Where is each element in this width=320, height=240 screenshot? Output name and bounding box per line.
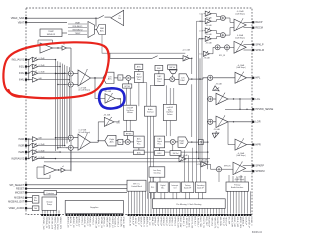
mixer left-adc B <box>68 82 73 87</box>
wire RESET <box>27 188 127 190</box>
svg-text:HPVDD_18: HPVDD_18 <box>94 217 96 229</box>
wire right dac out <box>188 141 198 142</box>
wire temp sensor out <box>62 32 67 34</box>
svg-text:SPI_SELECT: SPI_SELECT <box>9 184 24 187</box>
wire webbing below boxes <box>127 116 171 199</box>
amp LOR <box>216 116 228 128</box>
annotation red circle <box>3 42 108 98</box>
wire agc link L <box>138 69 140 71</box>
wire interp2 in <box>98 122 105 142</box>
buffer x1 bottom <box>61 166 65 172</box>
svg-text:ADC: ADC <box>100 29 105 32</box>
svg-text:Proc.: Proc. <box>137 143 142 146</box>
svg-text:CLKOUT_P: CLKOUT_P <box>216 217 218 229</box>
svg-text:DVDD_12: DVDD_12 <box>78 217 80 228</box>
svg-text:LOL: LOL <box>200 13 204 15</box>
svg-text:Supplies: Supplies <box>90 207 99 209</box>
svg-text:-78..0dB: -78..0dB <box>215 83 222 85</box>
box tertiary audio if <box>182 182 194 193</box>
svg-text:Volume: Volume <box>127 112 133 114</box>
svg-text:-36..0dB: -36..0dB <box>103 115 111 117</box>
svg-text:Mic.: Mic. <box>161 188 165 190</box>
svg-text:IN4L: IN4L <box>19 79 25 82</box>
wire mixers to pga2 <box>73 138 78 148</box>
wire input common bottom <box>28 139 30 159</box>
pin SPI_SELECT <box>9 184 27 187</box>
pin MICBIAS <box>14 197 27 200</box>
label pga2 gain <box>79 130 91 134</box>
wire hpvdd sense <box>225 99 252 110</box>
svg-text:-78..0dB: -78..0dB <box>205 42 211 44</box>
wire radc to fs <box>116 140 118 142</box>
mixer lol <box>207 96 213 101</box>
wire lol loop vert <box>207 78 208 169</box>
svg-text:HPVDD_SENSE: HPVDD_SENSE <box>255 108 273 111</box>
amp rec LOL <box>200 11 212 19</box>
label pga1 gain <box>79 87 91 91</box>
svg-text:IOVSS_0: IOVSS_0 <box>86 217 88 227</box>
svg-text:SPL_IN: SPL_IN <box>219 55 226 57</box>
svg-text:TDM_OUT1: TDM_OUT1 <box>213 217 215 230</box>
wire SPKL outs <box>244 45 253 50</box>
svg-text:HPL: HPL <box>255 76 261 80</box>
opamp vref-sar buffer <box>40 43 53 53</box>
wire bypass IN2R <box>38 151 208 153</box>
svg-text:Secondary: Secondary <box>197 185 205 187</box>
wire vref-audio rail <box>65 150 71 170</box>
pin RECP <box>252 20 263 24</box>
amp input IN2L <box>19 64 45 69</box>
amp input IN1L/AUX1 <box>12 57 46 62</box>
svg-text:-12..6.1dB: -12..6.1dB <box>180 155 189 157</box>
svg-text:Proc.: Proc. <box>137 78 142 81</box>
mult right adc vol <box>125 139 130 144</box>
wire drc link L <box>158 71 160 74</box>
svg-text:Control Block: Control Block <box>131 185 142 188</box>
wire pga1 to left adc <box>91 77 104 78</box>
mixer right-adc A <box>68 135 73 140</box>
svg-text:HP NG: HP NG <box>126 133 132 135</box>
wire agc link R <box>138 148 140 150</box>
amp input IN2R <box>18 149 45 154</box>
svg-text:AVSS2_0: AVSS2_0 <box>75 217 78 227</box>
wire bypass low <box>44 161 208 163</box>
svg-text:DVDD2_12: DVDD2_12 <box>111 217 113 229</box>
wire left dac out <box>189 78 208 80</box>
wire primary audio up <box>229 175 245 182</box>
box pin muxing <box>153 199 226 209</box>
wire mixers to pga1 <box>73 74 78 85</box>
svg-text:ADDR1_S: ADDR1_S <box>145 217 148 228</box>
wire mult to dac L <box>175 78 179 80</box>
wire vert A2 <box>191 84 193 137</box>
wire vref-audio out <box>56 169 61 170</box>
box adc signal proc R <box>134 136 145 148</box>
pin SPKRM <box>252 169 264 173</box>
svg-text:-78..0dB: -78..0dB <box>204 58 210 60</box>
svg-text:ADDR_SEL: ADDR_SEL <box>239 217 242 229</box>
svg-text:AVDD1_18: AVDD1_18 <box>66 217 69 229</box>
svg-text:IN1R/AUX2: IN1R/AUX2 <box>11 158 25 161</box>
wire lfc links <box>153 177 160 182</box>
svg-text:SDIN_P: SDIN_P <box>137 217 139 225</box>
wire amp-to-bus bottom <box>38 138 70 159</box>
svg-text:LOR: LOR <box>255 120 260 124</box>
svg-text:GPIO2_P: GPIO2_P <box>156 217 158 227</box>
svg-text:fs: fs <box>120 142 122 144</box>
svg-text:MICBIAS: MICBIAS <box>14 197 24 200</box>
box pll <box>149 182 156 193</box>
sar adc <box>97 25 106 35</box>
wire mult to adcproc L <box>131 77 135 79</box>
mixer hpl <box>208 75 213 80</box>
mixer left-adc A <box>68 71 73 76</box>
wire spkr chain <box>207 164 216 169</box>
svg-text:IN1L/AUX1: IN1L/AUX1 <box>12 59 25 62</box>
wire REC outs <box>244 22 253 27</box>
svg-text:MOSI_SPI: MOSI_SPI <box>230 217 232 228</box>
wire HPR out <box>247 144 253 146</box>
svg-text:GPIO1_P: GPIO1_P <box>154 217 156 227</box>
mixer rec P <box>220 16 225 21</box>
svg-text:SENSOR: SENSOR <box>47 34 56 36</box>
svg-text:ADC: ADC <box>108 78 113 81</box>
wire SPKR outs <box>243 166 252 172</box>
svg-text:SS_SPI: SS_SPI <box>227 217 229 225</box>
amp LOL <box>216 93 228 105</box>
wire fs to mult L <box>123 77 126 79</box>
mult left adc vol <box>126 75 131 80</box>
svg-text:SDA_I2C: SDA_I2C <box>151 217 154 227</box>
svg-text:80096-04: 80096-04 <box>252 231 263 234</box>
svg-text:VCM_AUD: VCM_AUD <box>108 217 111 228</box>
wire interp2 out <box>114 120 119 122</box>
comparator in-detect <box>111 10 124 25</box>
box primary audio interface <box>226 182 248 191</box>
wire sar top <box>95 18 97 26</box>
pins spi cluster <box>128 191 154 227</box>
amp HPR <box>235 139 247 158</box>
svg-text:LOL: LOL <box>199 54 203 56</box>
amp lor att <box>212 129 220 138</box>
sar mux input labels <box>68 21 87 35</box>
svg-text:PVSS_0: PVSS_0 <box>91 217 93 226</box>
svg-text:GPIO6_S: GPIO6_S <box>168 217 170 227</box>
pin SPKLP <box>252 43 264 47</box>
svg-text:AVSS1_0: AVSS1_0 <box>69 217 72 227</box>
pin LOL <box>252 97 261 101</box>
svg-text:AGC: AGC <box>137 66 142 69</box>
pin HPVDD_SENSE <box>252 108 274 111</box>
wire dacproc to mult R <box>165 141 171 143</box>
svg-text:SPKLP: SPKLP <box>255 43 264 47</box>
wire vref rail mid <box>70 76 72 135</box>
svg-text:(0.5-dB Steps): (0.5-dB Steps) <box>79 131 91 134</box>
svg-text:XTALO_MC: XTALO_MC <box>122 217 125 229</box>
wire spkr mix to amp <box>222 168 233 170</box>
svg-text:CLATCH_P: CLATCH_P <box>247 217 250 229</box>
svg-text:DRC: DRC <box>157 153 162 155</box>
box spi i2c control <box>127 180 146 191</box>
svg-text:IN4R: IN4R <box>18 138 24 141</box>
wire mult to adcproc R <box>130 141 133 143</box>
box hp-ng left <box>123 84 132 88</box>
box dac mute node <box>198 140 203 145</box>
box digital mic <box>158 182 169 193</box>
amp input IN3L <box>19 71 45 76</box>
svg-text:DOUT2_SE: DOUT2_SE <box>191 217 193 229</box>
svg-text:IN3L: IN3L <box>19 72 25 75</box>
switch S1 <box>97 15 111 18</box>
svg-text:PVDD_18: PVDD_18 <box>89 217 91 228</box>
svg-text:DMIC_DAT: DMIC_DAT <box>179 217 182 229</box>
svg-text:SPR_IN: SPR_IN <box>224 165 231 167</box>
svg-text:(6-dB Steps): (6-dB Steps) <box>235 37 245 40</box>
wire vert B <box>199 58 200 162</box>
pin LOR <box>252 120 261 124</box>
amp SPKR <box>233 162 246 181</box>
svg-text:x1: x1 <box>63 44 65 46</box>
svg-text:IRQ_OUT: IRQ_OUT <box>205 217 207 227</box>
svg-text:x1: x1 <box>62 166 64 168</box>
svg-text:DMIC_CLK: DMIC_CLK <box>176 217 178 229</box>
box interrupt ctrl <box>170 182 181 193</box>
svg-text:LRCLK2_S: LRCLK2_S <box>185 217 187 228</box>
svg-text:IN2L: IN2L <box>19 66 25 69</box>
wire fs to mult R <box>123 141 125 143</box>
amp -12..6dB top <box>182 49 191 61</box>
svg-text:AVDD2_18: AVDD2_18 <box>72 217 75 229</box>
adc right ADC <box>105 135 116 146</box>
wire spkl chain <box>210 47 216 54</box>
opamp vref-audio buffer <box>44 165 56 175</box>
svg-text:Pump: Pump <box>47 204 52 206</box>
svg-text:IOVDD_18: IOVDD_18 <box>83 217 85 228</box>
svg-text:Detection: Detection <box>47 192 54 195</box>
wire bundle verticals <box>185 148 201 182</box>
svg-text:(1-dB Steps): (1-dB Steps) <box>236 154 246 157</box>
svg-text:DVSS_0: DVSS_0 <box>80 217 82 226</box>
wire detection out <box>57 192 127 194</box>
svg-text:Interface: Interface <box>147 111 154 114</box>
box dac signal proc L <box>155 74 165 86</box>
svg-text:VNEG_CP18: VNEG_CP18 <box>53 217 55 231</box>
amp input IN3R <box>18 143 45 148</box>
svg-text:RESET: RESET <box>16 188 25 191</box>
svg-text:Bias: Bias <box>34 200 37 202</box>
wire rec input verticals <box>197 14 204 163</box>
amp input IN4R <box>18 137 42 142</box>
switch core <box>152 56 157 59</box>
svg-text:-78..0dB: -78..0dB <box>213 129 220 131</box>
svg-text:DAC: DAC <box>181 79 186 82</box>
pins digital cluster <box>153 191 252 229</box>
svg-text:Pin Muxing / Clock Routing: Pin Muxing / Clock Routing <box>176 203 202 206</box>
box decimator fs L <box>118 75 123 80</box>
svg-text:PLLVDD_1: PLLVDD_1 <box>114 217 116 229</box>
box supplies <box>65 201 123 214</box>
svg-text:AGC: AGC <box>137 151 142 154</box>
svg-text:GPIO7_S: GPIO7_S <box>171 217 173 227</box>
svg-text:GPIO8_S: GPIO8_S <box>174 217 176 227</box>
wire interp1 out <box>115 98 121 105</box>
wire vert A <box>191 58 192 74</box>
pin HPL <box>252 76 261 80</box>
box low freq clocking <box>149 167 165 177</box>
amp input IN4L <box>19 77 43 82</box>
svg-text:GPIO3_P: GPIO3_P <box>159 217 161 227</box>
wire spkl mix link <box>220 46 234 48</box>
svg-text:CPVDD_1V8: CPVDD_1V8 <box>42 217 44 231</box>
svg-text:Proc.: Proc. <box>157 80 162 83</box>
label SPR_IN <box>219 165 231 182</box>
mixer spkl B <box>225 45 230 50</box>
svg-text:Clocking: Clocking <box>153 173 160 175</box>
wire LOL out <box>228 98 252 99</box>
svg-text:SCLK_SPI: SCLK_SPI <box>236 217 238 228</box>
svg-text:MICDET: MICDET <box>15 192 25 195</box>
amp -12..6dB bottom <box>179 155 188 162</box>
svg-text:GPIO4_P: GPIO4_P <box>162 217 164 227</box>
pin VREF_SAR <box>11 16 27 20</box>
svg-text:HP NG: HP NG <box>124 86 130 88</box>
svg-text:PLLVSS_0: PLLVSS_0 <box>116 217 118 228</box>
svg-text:CFLYP_1V8: CFLYP_1V8 <box>48 217 50 230</box>
wire mult to hpng R <box>127 136 129 140</box>
svg-text:LOR: LOR <box>197 164 202 166</box>
wire hpl mix to amp <box>213 77 235 79</box>
box agc right <box>134 150 145 155</box>
wire VREF_AUDIO <box>27 207 32 209</box>
svg-text:(1-dB Steps): (1-dB Steps) <box>235 12 245 15</box>
mixer lor <box>207 119 213 124</box>
wire mux to sar adc <box>95 29 97 31</box>
svg-text:SPKRM: SPKRM <box>255 169 264 173</box>
wire SPI_SELECT <box>27 184 127 186</box>
pin MICBIAS_EXT <box>8 200 27 203</box>
svg-text:HPR: HPR <box>255 143 261 147</box>
svg-text:DIN2_SEC: DIN2_SEC <box>188 217 190 228</box>
svg-text:fs: fs <box>120 78 122 80</box>
wire bus-to-mixer top <box>55 73 69 85</box>
pins supplies cluster <box>66 213 125 228</box>
svg-text:SDOUT_P: SDOUT_P <box>140 217 142 228</box>
svg-text:LOR: LOR <box>199 30 204 32</box>
label figure number <box>252 231 263 234</box>
pin SPKLM <box>252 48 264 52</box>
svg-text:-78..0dB: -78..0dB <box>205 34 211 36</box>
svg-text:BCLK3_T: BCLK3_T <box>193 217 195 227</box>
svg-text:IN3R: IN3R <box>18 145 24 148</box>
wire lor mix to amp <box>213 121 216 123</box>
amp REC <box>234 11 246 31</box>
wire pga2 to right adc <box>91 141 105 142</box>
svg-text:DRC: DRC <box>157 68 162 70</box>
box minidsp dig mixer volume <box>124 105 137 120</box>
wire bypass IN1R <box>38 158 210 160</box>
wire mute to column <box>203 141 208 143</box>
svg-text:LOL: LOL <box>255 97 260 101</box>
svg-text:VBAT: VBAT <box>18 20 25 24</box>
svg-text:SW Vol: SW Vol <box>169 67 175 69</box>
dac right DAC <box>178 137 188 147</box>
wire MICBIAS_EXT <box>27 200 32 202</box>
pin MICDET <box>15 192 27 195</box>
amp interp left 50pct <box>104 91 121 103</box>
svg-text:TEST2_P: TEST2_P <box>225 217 227 227</box>
svg-text:TDM_IN1: TDM_IN1 <box>210 217 212 227</box>
pin RESET <box>16 188 27 191</box>
mult right dac vol <box>170 139 175 144</box>
svg-text:50%: 50% <box>116 123 120 125</box>
svg-text:TEST1_P: TEST1_P <box>222 217 224 227</box>
svg-text:RECM: RECM <box>255 26 263 30</box>
svg-text:-12..6.1dB: -12..6.1dB <box>182 49 191 51</box>
box sw vol left <box>168 65 177 69</box>
svg-text:CPGND_01: CPGND_01 <box>45 217 47 229</box>
wire mult swvol link R <box>172 144 174 150</box>
wire core rail <box>110 53 192 58</box>
buffer x1 top <box>62 44 66 51</box>
svg-text:DOUT3_TE: DOUT3_TE <box>202 217 204 229</box>
svg-text:BCLK_P: BCLK_P <box>131 217 133 226</box>
wire MICDET <box>27 192 44 194</box>
pins charge pump cluster <box>41 210 61 230</box>
svg-text:Det: Det <box>118 17 121 20</box>
wire bus-to-mixer bottom <box>55 137 69 149</box>
pin VREF_AUDIO <box>9 207 27 210</box>
mixer right-adc B <box>68 145 73 150</box>
amp rec IN1R <box>199 36 212 44</box>
box minidsp adc dig mixer <box>163 104 176 120</box>
wire HPL out <box>247 77 253 79</box>
svg-text:CCLK_P: CCLK_P <box>245 217 247 226</box>
wire muxvol to mult L <box>171 74 174 77</box>
label SPL_IN <box>219 50 227 57</box>
wire interp1 in <box>94 77 105 98</box>
svg-text:MCLKO_P: MCLKO_P <box>208 217 210 228</box>
wire amp-to-bus top <box>38 59 70 81</box>
adc left ADC <box>103 72 114 83</box>
wire rec mix to amp <box>225 18 234 35</box>
svg-text:miniDSP: miniDSP <box>167 107 173 109</box>
box drc left <box>155 65 163 70</box>
pga left PGA1 <box>78 69 91 86</box>
box sw vol right <box>170 151 181 156</box>
svg-text:GPIO5_P: GPIO5_P <box>165 217 167 227</box>
svg-text:-78..0dB: -78..0dB <box>201 160 207 162</box>
svg-text:SPVDD_18: SPVDD_18 <box>100 217 102 229</box>
svg-text:(0.5-dB Steps): (0.5-dB Steps) <box>79 89 91 92</box>
mixer rec M <box>220 33 225 38</box>
box agc left <box>135 64 143 69</box>
svg-text:MISO_SPI: MISO_SPI <box>233 217 235 228</box>
svg-text:(6-dB Steps): (6-dB Steps) <box>235 178 245 181</box>
svg-text:XTALI_MC: XTALI_MC <box>119 217 122 228</box>
svg-text:SELCKIN: SELCKIN <box>219 217 221 227</box>
pga right PGA2 <box>78 133 91 150</box>
svg-text:SPVSS_0: SPVSS_0 <box>103 217 105 228</box>
svg-text:LRCLK_P: LRCLK_P <box>134 217 136 227</box>
svg-text:LRCLK3_T: LRCLK3_T <box>196 217 198 228</box>
svg-text:VREF_SAR: VREF_SAR <box>11 16 25 20</box>
wire vref rail bottom <box>70 140 72 171</box>
svg-text:-36..0dB: -36..0dB <box>104 91 112 93</box>
svg-text:BCLK2_S: BCLK2_S <box>182 217 184 227</box>
svg-text:ADC: ADC <box>110 140 115 143</box>
svg-text:MCLK_IN: MCLK_IN <box>128 217 130 227</box>
wire hpr in <box>228 122 235 145</box>
